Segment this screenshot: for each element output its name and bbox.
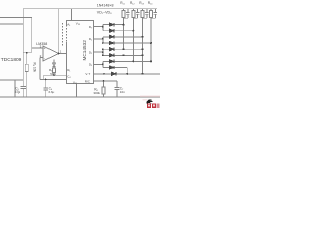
- wire link L3: [102, 49, 104, 55]
- svg-text:R₁: R₁: [67, 68, 70, 72]
- capacitor C13: [143, 9, 149, 19]
- IC U2 MC14532 box: [66, 21, 93, 84]
- junction node link L3 end: [102, 54, 104, 56]
- bus column 3: [142, 9, 144, 74]
- diode VD4 symbol: [109, 41, 114, 44]
- wire encoder pin P2: [94, 38, 103, 40]
- junction node r7c2: [132, 60, 134, 62]
- junction node output: [58, 53, 60, 55]
- junction node r3c3: [142, 36, 144, 38]
- wire V+ drop to op-amp output node: [58, 9, 60, 54]
- junction node p2: [102, 38, 104, 40]
- resistor R13 body: [141, 11, 144, 18]
- diode row VD1: [103, 24, 124, 26]
- diode VD5 symbol: [109, 48, 114, 51]
- junction node link L2 end: [102, 42, 104, 44]
- diode VD2 symbol: [109, 29, 114, 32]
- wire bottom ground rail: [0, 96, 160, 98]
- junction node r4c4: [150, 42, 152, 44]
- wire sensor input from left edge: [0, 18, 43, 53]
- resistor R6 body: [25, 64, 28, 71]
- diode VD8 symbol: [109, 66, 114, 69]
- junction node r5c1: [123, 48, 125, 50]
- svg-text:MC14532: MC14532: [82, 40, 87, 61]
- junction node r9c3: [142, 73, 144, 75]
- capacitor C12: [133, 9, 139, 19]
- wire encoder pin P1: [94, 26, 103, 28]
- svg-text:Vₛₛ: Vₛₛ: [73, 80, 77, 84]
- wire ground pin of TDC1809: [14, 80, 16, 97]
- junction node r6c2: [142, 54, 144, 56]
- wire VSS pin: [75, 84, 77, 97]
- svg-text:R₁₁: R₁₁: [120, 1, 124, 5]
- watermark white glyph 2: [153, 105, 155, 107]
- watermark red block 2: [152, 103, 156, 108]
- bus column 4: [150, 9, 152, 62]
- wire op-amp output to encoder: [59, 53, 67, 55]
- diode VD9 symbol: [112, 72, 117, 75]
- wire encoder pin P4: [94, 63, 103, 65]
- junction node R6 top: [26, 52, 28, 54]
- capacitor C7: [115, 88, 120, 97]
- bus column 2: [132, 9, 134, 62]
- svg-text:TDC1809: TDC1809: [1, 57, 22, 63]
- svg-text:1N4148×8: 1N4148×8: [97, 3, 114, 7]
- capacitor C5: [20, 80, 26, 97]
- wire link L4: [102, 61, 104, 67]
- watermark faint red text over rail: [140, 95, 160, 96]
- wire VDD pin: [70, 9, 72, 21]
- junction node r6c4: [123, 54, 125, 56]
- diode VD9 feedback: [52, 59, 55, 67]
- svg-text:3.3μ: 3.3μ: [48, 90, 54, 94]
- svg-text:R₁₄: R₁₄: [148, 1, 153, 5]
- capacitor C14: [151, 9, 157, 19]
- svg-text:D₁: D₁: [89, 37, 92, 41]
- svg-text:47μ: 47μ: [15, 90, 21, 94]
- svg-text:10n: 10n: [120, 90, 125, 94]
- svg-text:R₁₃: R₁₃: [139, 1, 144, 5]
- dashed stub second half LM358: [62, 23, 64, 46]
- IC TDC1809 box: [0, 24, 23, 80]
- watermark white glyph 1: [148, 105, 150, 107]
- wire RC pin bus: [40, 79, 67, 81]
- svg-text:A₁: A₁: [67, 22, 70, 26]
- diode row VD6: [103, 54, 143, 56]
- junction node r5c3: [142, 48, 144, 50]
- junction node r2c2: [132, 30, 134, 32]
- diode VD1 symbol: [109, 23, 114, 26]
- wire R/C pin to R8 C7: [94, 81, 117, 88]
- svg-text:V₃₃: V₃₃: [76, 21, 81, 25]
- resistor R6 leads: [26, 53, 28, 97]
- svg-text:300k: 300k: [93, 91, 100, 95]
- junction node p4: [102, 64, 104, 66]
- svg-text:+: +: [44, 47, 46, 51]
- resistor R9 lead: [53, 72, 55, 75]
- wire link L1: [102, 25, 104, 31]
- resistor R9 body: [53, 68, 56, 73]
- svg-text:VD₁~VD₈: VD₁~VD₈: [97, 10, 112, 14]
- junction node r9 pin: [103, 73, 105, 75]
- watermark bird logo: [146, 99, 153, 103]
- diode row VD2: [103, 30, 134, 32]
- wire left vertical / TDC1809 right edge: [22, 9, 24, 80]
- svg-text:LM358: LM358: [36, 42, 47, 46]
- junction node r1c1: [123, 24, 125, 26]
- wire encoder pin P3: [94, 51, 103, 53]
- diode row VD5: [103, 48, 143, 50]
- svg-text:5M1: 5M1: [50, 72, 56, 76]
- watermark red tail: [157, 104, 160, 108]
- resistor R8 leads: [103, 81, 105, 97]
- diode row VD4: [103, 42, 151, 44]
- svg-text:R₁₂: R₁₂: [130, 1, 135, 5]
- wire link L2: [102, 37, 104, 43]
- svg-text:V·T: V·T: [85, 72, 90, 76]
- diode VD6 symbol: [109, 54, 114, 57]
- watermark red block 1: [147, 103, 151, 108]
- resistor R14 body: [150, 11, 153, 18]
- bus column 1: [123, 9, 125, 50]
- svg-text:R₆ 10k: R₆ 10k: [33, 63, 37, 73]
- wire feedback bus to C4 pin: [44, 75, 67, 79]
- capacitor C6: [43, 80, 48, 98]
- diode row VD7: [103, 60, 151, 62]
- junction node p3: [102, 51, 104, 53]
- resistor R11 body: [122, 11, 125, 18]
- diode row VD3: [103, 36, 143, 38]
- svg-text:-: -: [44, 56, 45, 60]
- dashed omitted-pins line on MC14532 left edge: [65, 25, 67, 42]
- diode VD3 symbol: [109, 35, 114, 38]
- junction node r7c4: [150, 60, 152, 62]
- junction node link L3 top: [102, 48, 104, 50]
- op-amp U1 LM358 triangle: [43, 46, 59, 61]
- resistor R8 body: [102, 87, 105, 94]
- diode row VD9 from V.T pin: [94, 73, 160, 75]
- wire top rail V+: [23, 8, 157, 10]
- junction node r9 corner: [126, 73, 128, 75]
- svg-text:R/C: R/C: [85, 80, 91, 84]
- wire inverting input: [40, 58, 43, 80]
- capacitor C11: [124, 9, 130, 19]
- junction node p1: [102, 26, 104, 28]
- junction node C6 top: [45, 79, 47, 81]
- resistor R12 body: [132, 11, 135, 18]
- junction node fb: [53, 74, 55, 76]
- diode row VD8 with corner: [103, 68, 127, 74]
- diode VD7 symbol: [109, 60, 114, 63]
- junction node R8 top: [103, 80, 105, 82]
